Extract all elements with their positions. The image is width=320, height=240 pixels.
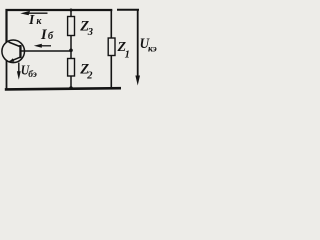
svg-text:3: 3 (87, 27, 93, 38)
svg-text:I: I (40, 27, 48, 43)
svg-text:бэ: бэ (28, 69, 37, 80)
svg-text:1: 1 (125, 49, 130, 60)
svg-text:к: к (36, 16, 42, 27)
svg-text:2: 2 (86, 70, 93, 81)
svg-text:I: I (28, 12, 35, 27)
svg-text:б: б (48, 31, 54, 42)
svg-text:кэ: кэ (148, 45, 157, 55)
